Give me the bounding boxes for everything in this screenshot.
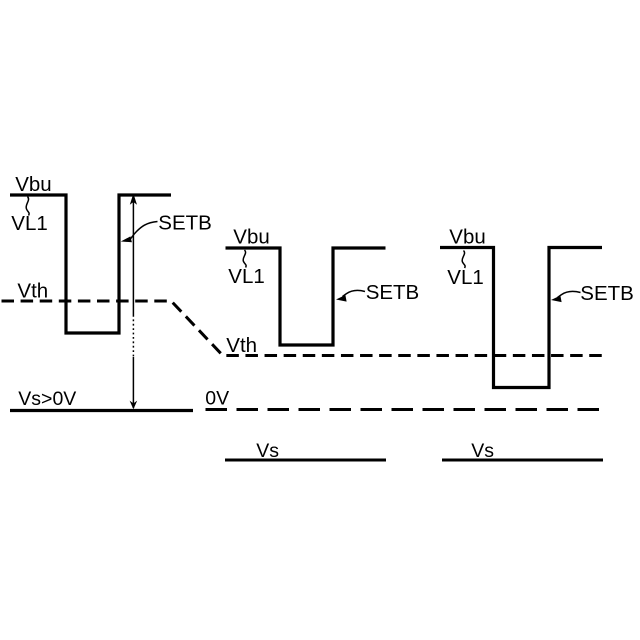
Vs level line (middle)	[225, 459, 386, 462]
svg-text:SETB: SETB	[158, 212, 212, 235]
wire: right waveform trace Vbu with deep SETB pulse	[440, 248, 602, 388]
measure arrow upper solid shaft	[132, 198, 134, 315]
svg-text:SETB: SETB	[366, 281, 420, 304]
0V dashed baseline	[206, 408, 607, 411]
Vs level line (right)	[442, 459, 603, 462]
squiggle connector Vbu/VL1 (left)	[26, 197, 29, 216]
arrowhead of middle SETB leader	[336, 295, 347, 302]
leader arrow SETB to right pulse	[558, 291, 581, 297]
svg-text:Vth: Vth	[226, 334, 257, 357]
svg-text:VL1: VL1	[11, 212, 47, 235]
leader arrow SETB to middle pulse	[343, 290, 366, 296]
leader arrow SETB to left pulse	[131, 222, 158, 239]
svg-text:VL1: VL1	[228, 265, 264, 288]
svg-text:Vs>0V: Vs>0V	[18, 388, 76, 410]
svg-text:Vth: Vth	[17, 280, 48, 303]
wire: left waveform trace Vbu with SETB pulse	[10, 195, 171, 333]
svg-text:SETB: SETB	[580, 282, 634, 305]
measure arrow lower solid shaft	[132, 357, 134, 408]
svg-text:VL1: VL1	[447, 266, 483, 289]
svg-text:Vbu: Vbu	[15, 173, 51, 196]
squiggle connector Vbu/VL1 (middle)	[243, 250, 246, 268]
measure arrow up arrowhead	[130, 194, 137, 205]
arrowhead of left SETB leader	[121, 236, 132, 242]
wire: middle waveform trace Vbu with SETB pulse	[226, 248, 386, 345]
svg-text:Vbu: Vbu	[233, 226, 269, 249]
arrowhead of right SETB leader	[551, 296, 562, 303]
Vth threshold dashed line with downward slope	[2, 301, 605, 356]
measure arrow dotted middle part	[132, 315, 134, 357]
measure arrow down arrowhead	[130, 401, 138, 410]
squiggle connector Vbu/VL1 (right)	[462, 251, 465, 269]
svg-text:0V: 0V	[205, 388, 229, 410]
svg-text:Vbu: Vbu	[449, 226, 485, 249]
Vs>0V level solid line	[10, 409, 193, 412]
